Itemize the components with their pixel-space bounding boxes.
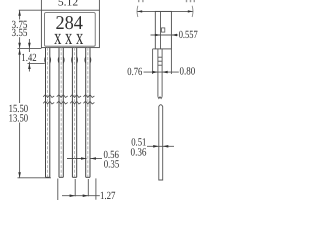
extension line at body bottom (seating plane) [18,47,42,49]
package body outline (front view) [41,10,99,47]
svg-text:5.12: 5.12 [58,0,78,9]
dimension line 3.75/3.55 upper segment [19,10,21,19]
extension line at x=95.9 (cut dimension) [95,178,97,199]
extension line from lead 3 centre [74,179,76,196]
extension tick right (side view top) [191,6,194,17]
break squiggle lead 3 upper [70,95,81,98]
extension tick left (side view top) [136,6,139,17]
extension line left for dimension 5.12 [40,0,42,10]
arrow right dimension 0.76 [152,71,158,74]
extension line right for dimension 5.12 [98,0,100,10]
arrow right dimension 1.27 [83,194,89,197]
dimension line 0.51/0.36 [147,145,174,147]
arrow right dimension 0.56 [81,157,87,160]
arrow right end of top dimension (side view) [188,10,193,12]
crimp tick 2 [158,60,162,62]
svg-text:0.35: 0.35 [104,159,120,171]
svg-text:13.50: 13.50 [9,113,29,125]
package body outline (side view) [155,11,171,49]
lead shoulder right edge (side view) [161,49,163,97]
svg-text:0.76: 0.76 [127,66,142,78]
arrow down dimension 1.42 [28,43,31,49]
dimension 1.42 lower arrow shaft [28,62,30,72]
crimp tick 1 [158,56,162,58]
arrow up dimension 15.50 [18,49,21,55]
arrow up dimension 1.42 [28,63,31,69]
lead 4 (front view) [85,48,91,178]
crimp tick 3 [158,64,162,66]
extension drop right of side body [170,49,172,74]
dimension line 0.557 [151,34,179,36]
break squiggle lead 4 lower [83,101,94,104]
break squiggle lead 2 upper [57,95,68,98]
dimension 1.42 upper arrow shaft [28,39,30,52]
dimension line 0.76/0.80 [144,71,179,73]
break squiggle lead 2 lower [57,101,68,104]
lead shoulder left edge (side view) [157,49,159,97]
break squiggle lead 1 lower [43,101,54,104]
boss feature on side face [162,28,165,32]
extension line from lead 4 centre [87,179,89,196]
dimension line 0.56/0.35 right segment [90,158,102,160]
lead centre lines (dashed) [48,48,88,177]
arrow right dimension 0.557 [155,34,161,37]
lead 2 (front view) [58,48,64,178]
arrow down dimension 3.75 [18,43,21,49]
break squiggle lead 4 upper [83,95,94,98]
arrow left dimension 0.56 [90,157,96,160]
arrow left dimension 1.27 [70,194,76,197]
svg-text:3.55: 3.55 [12,27,28,39]
body step line (side view) [160,11,162,49]
extension drop left of side body [152,49,154,74]
lead 1 (front view) [45,48,51,178]
dimension line 15.50/13.50 upper segment [19,49,21,103]
dimension line 0.56/0.35 left segment [67,158,87,160]
arrow up dimension 3.75 [18,10,21,16]
extension line at lead shoulder bottom [28,62,45,64]
svg-text:0.557: 0.557 [179,29,198,41]
lead 3 (front view) [72,48,78,178]
break squiggle lead 3 lower [70,101,81,104]
dimension line 3.75/3.55 lower segment [19,37,21,48]
dimension line 15.50/13.50 lower segment [19,123,21,178]
body bottom edge overhang (side view) [153,48,156,50]
lead lower segment with rounded break top (side view) [159,105,163,180]
dimension line 1.27 [62,195,100,197]
svg-text:xxx: xxx [54,24,87,49]
svg-text:1.42: 1.42 [21,52,36,64]
arrow right dimension 0.51 [153,145,159,148]
arrow left end of top dimension (side view) [137,10,142,12]
arrow left dimension 0.557 [171,34,177,37]
break squiggle lead 1 upper [43,95,54,98]
extension line below leads at x=57.8 (cut dimension) [57,179,59,201]
extension line at lead tips [18,177,52,179]
extension line: body top edge extended left [19,9,42,11]
arrow left dimension 0.36 [163,145,169,148]
arrow left dimension 0.80 [162,71,168,74]
lead break jagged end (side view) [158,97,162,99]
cut-off dimension text remnants at top edge [138,0,195,2]
svg-text:0.36: 0.36 [131,146,147,158]
svg-text:1.27: 1.27 [100,190,116,200]
arrow down dimension 15.50 [18,172,21,178]
package body marking face inner outline [45,13,96,47]
svg-text:0.80: 0.80 [180,65,196,77]
dimension line across package top (side view) [137,10,193,12]
